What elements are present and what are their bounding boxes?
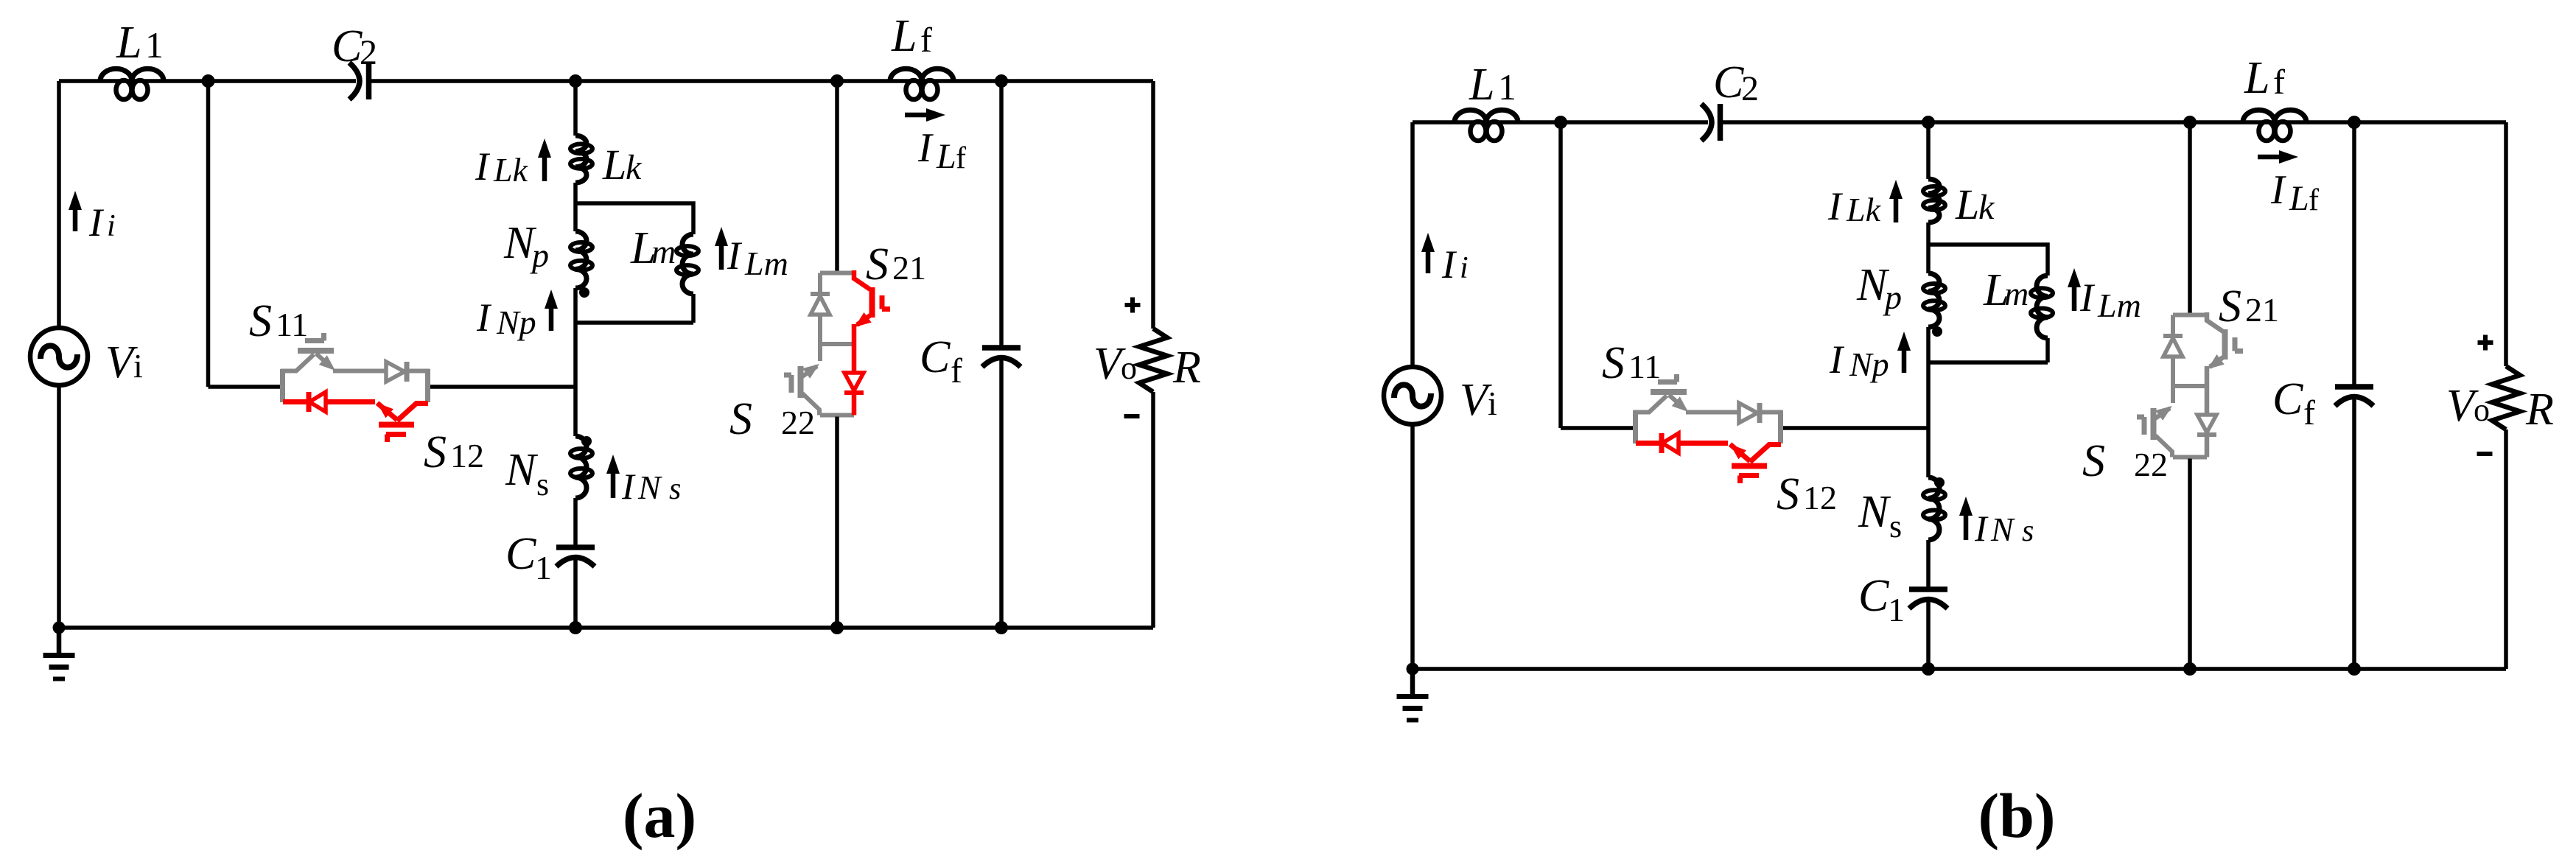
svg-text:S: S: [729, 394, 752, 444]
svg-text:f: f: [951, 351, 962, 390]
svg-text:(a): (a): [623, 780, 696, 851]
svg-text:k: k: [626, 148, 643, 187]
svg-text:S: S: [1602, 338, 1625, 388]
svg-text:N: N: [637, 469, 662, 506]
svg-text:L: L: [936, 137, 956, 176]
svg-text:12: 12: [1803, 479, 1837, 516]
svg-text:1: 1: [535, 549, 552, 586]
svg-text:1: 1: [1888, 591, 1905, 628]
svg-text:11: 11: [276, 306, 308, 343]
svg-text:S: S: [866, 239, 889, 290]
svg-text:s: s: [2022, 514, 2034, 548]
svg-text:R: R: [2525, 385, 2554, 435]
svg-text:S: S: [1777, 469, 1799, 519]
svg-text:o: o: [2474, 392, 2490, 428]
svg-text:L: L: [602, 141, 626, 189]
svg-text:I: I: [2079, 276, 2096, 320]
svg-text:Lm: Lm: [744, 245, 788, 282]
svg-text:Lm: Lm: [2097, 287, 2141, 324]
svg-text:S: S: [424, 427, 447, 477]
svg-text:N: N: [1858, 487, 1891, 537]
svg-text:f: f: [2309, 183, 2319, 217]
svg-text:s: s: [536, 466, 549, 502]
svg-text:I: I: [88, 200, 105, 245]
svg-text:1: 1: [1498, 66, 1516, 108]
svg-text:11: 11: [1628, 348, 1661, 385]
svg-text:C: C: [1713, 57, 1744, 108]
svg-text:f: f: [2273, 63, 2285, 102]
svg-text:I: I: [1829, 337, 1845, 382]
svg-text:f: f: [920, 21, 932, 60]
svg-text:p: p: [1883, 278, 1902, 316]
svg-text:I: I: [2270, 167, 2286, 213]
svg-text:s: s: [669, 472, 681, 506]
svg-text:Np: Np: [1849, 346, 1889, 383]
svg-text:I: I: [1827, 184, 1844, 228]
svg-text:L: L: [1955, 180, 1979, 228]
svg-text:R: R: [1172, 343, 1201, 393]
svg-text:S: S: [2219, 281, 2241, 332]
svg-text:C: C: [1858, 571, 1889, 621]
svg-text:C: C: [920, 332, 951, 382]
svg-text:m: m: [2004, 275, 2029, 312]
svg-text:L: L: [1469, 60, 1494, 110]
svg-text:I: I: [917, 125, 934, 171]
svg-text:k: k: [1978, 188, 1995, 227]
svg-text:Lk: Lk: [493, 151, 529, 189]
svg-text:L: L: [116, 18, 141, 68]
svg-text:12: 12: [450, 437, 484, 474]
svg-text:I: I: [475, 144, 491, 189]
svg-text:p: p: [530, 236, 549, 274]
svg-text:C: C: [505, 529, 536, 579]
svg-text:s: s: [1889, 508, 1902, 544]
svg-text:L: L: [2244, 53, 2269, 103]
svg-text:Np: Np: [496, 304, 536, 341]
svg-text:Lk: Lk: [1846, 191, 1882, 228]
svg-text:I: I: [727, 234, 743, 278]
svg-text:2: 2: [360, 33, 377, 72]
svg-text:C: C: [2272, 374, 2303, 424]
svg-text:L: L: [891, 11, 917, 61]
svg-text:N: N: [505, 445, 539, 495]
svg-text:22: 22: [781, 404, 815, 441]
svg-text:2: 2: [1741, 69, 1759, 108]
svg-text:C: C: [332, 21, 363, 71]
svg-text:21: 21: [2245, 291, 2279, 329]
svg-text:I: I: [476, 295, 492, 340]
svg-text:(b): (b): [1978, 780, 2055, 851]
svg-text:I: I: [1974, 508, 1989, 549]
svg-text:I: I: [621, 466, 636, 507]
svg-text:1: 1: [145, 24, 164, 66]
svg-text:22: 22: [2134, 446, 2168, 483]
svg-text:f: f: [2303, 393, 2315, 432]
svg-text:i: i: [1488, 385, 1497, 422]
svg-text:i: i: [133, 347, 143, 385]
svg-text:I: I: [1441, 242, 1457, 287]
svg-text:f: f: [956, 141, 966, 175]
svg-text:i: i: [1460, 251, 1469, 285]
svg-text:S: S: [2082, 436, 2105, 486]
svg-text:L: L: [2289, 179, 2309, 218]
svg-text:i: i: [107, 209, 116, 243]
svg-text:S: S: [249, 296, 272, 346]
svg-text:o: o: [1121, 350, 1137, 386]
svg-text:N: N: [1990, 511, 2015, 548]
svg-text:21: 21: [892, 249, 926, 287]
svg-text:m: m: [651, 233, 676, 270]
